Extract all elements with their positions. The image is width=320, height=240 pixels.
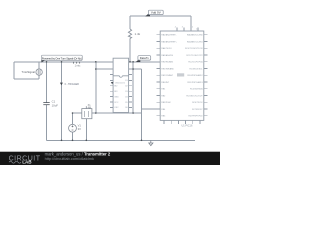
IC U2 pin name texts — [114, 80, 128, 109]
svg-text:RC4/SDI/SDA: RC4/SDI/SDA — [190, 88, 203, 91]
svg-text:RC3/SCK/SCL: RC3/SCK/SCL — [189, 68, 203, 70]
IC U1 left pin name texts — [161, 34, 177, 118]
svg-text:RC5/SDO/C2OUT: RC5/SDO/C2OUT — [186, 95, 203, 97]
svg-text:RD1/PSP1/AN13: RD1/PSP1/AN13 — [187, 81, 203, 84]
voltage source V1 — [69, 124, 77, 132]
svg-text:1: 1 — [196, 28, 197, 30]
svg-text:RD7/PSP7/P1D: RD7/PSP7/P1D — [188, 116, 203, 118]
wire top net drop to U1 top pin — [190, 16, 192, 31]
wire capacitor C1 top lead — [46, 62, 48, 103]
svg-text:RE1/WR/AN6: RE1/WR/AN6 — [161, 67, 174, 70]
svg-text:Vdd 9V: Vdd 9V — [151, 11, 161, 15]
wire mic bottom stub — [38, 75, 40, 79]
wire main horizontal net left segment — [14, 61, 113, 63]
svg-text:RE2/CS/AN7: RE2/CS/AN7 — [161, 74, 174, 77]
wire X1 bottom lead — [85, 119, 87, 141]
svg-text:DataTx: DataTx — [140, 56, 150, 60]
svg-text:RA3/AN3/VREF+: RA3/AN3/VREF+ — [161, 40, 177, 43]
net flag Vdd tail — [145, 12, 150, 16]
resistor R1 — [128, 29, 131, 39]
IC U1 body — [160, 31, 204, 120]
svg-text:OSC/CLK1: OSC/CLK1 — [115, 83, 126, 85]
wire vertical to rail at ground — [141, 69, 143, 140]
svg-text:RC7/RX/DT: RC7/RX/DT — [192, 109, 203, 111]
IC U2 left pins — [110, 75, 113, 108]
svg-text:Powered by One Turn Signal (Or: Powered by One Turn Signal (Or No) — [42, 57, 82, 61]
svg-text:RA4/T0CKI: RA4/T0CKI — [161, 47, 172, 50]
svg-text:http://circuitlab.com/c6atdmk: http://circuitlab.com/c6atdmk — [45, 156, 94, 161]
wire vertical node branch — [95, 62, 97, 113]
svg-text:RC6/TX/CK: RC6/TX/CK — [192, 102, 203, 104]
svg-text:3V: 3V — [78, 127, 81, 131]
svg-text:RA1/AN1/C12IN1: RA1/AN1/C12IN1 — [187, 40, 204, 43]
wire main horizontal net right segment — [129, 61, 161, 63]
svg-text:RE0/RD/AN5: RE0/RD/AN5 — [161, 61, 174, 64]
svg-text:RA0/AN0/C12IN0: RA0/AN0/C12IN0 — [187, 34, 204, 37]
svg-text:V1: V1 — [78, 123, 82, 127]
connector J1 pin ticks on wire — [74, 62, 80, 64]
wire V1 bottom lead — [72, 132, 74, 140]
IC U1 right pins — [204, 35, 208, 116]
wire bottom horizontal branch — [96, 112, 142, 114]
capacitor C1 — [43, 103, 49, 105]
wire mic loop bottom horizontal — [14, 78, 39, 80]
crystal X1 — [82, 106, 92, 119]
svg-text:LAB: LAB — [22, 160, 32, 165]
svg-text:RC2/CCP1/P1A: RC2/CCP1/P1A — [188, 61, 203, 64]
IC U1 top pin numbers — [175, 26, 197, 30]
svg-text:4M: 4M — [88, 107, 91, 110]
svg-text:1.4k: 1.4k — [135, 32, 141, 36]
wire capacitor C1 bottom lead — [46, 105, 48, 141]
junction dots — [46, 61, 143, 141]
svg-text:0 - TRIGGER: 0 - TRIGGER — [65, 83, 80, 86]
svg-text:RB0/INT: RB0/INT — [161, 82, 169, 84]
annotation banner box — [41, 55, 82, 60]
net flag Data box — [138, 56, 151, 60]
svg-text:GND: GND — [114, 96, 119, 98]
wire top net horizontal — [130, 15, 191, 17]
wire mic top stub — [38, 62, 40, 69]
wire mid horizontal branch right — [129, 68, 142, 70]
svg-text:RD0/PSP0/AN12: RD0/PSP0/AN12 — [187, 74, 203, 77]
svg-text:RB3/PGM: RB3/PGM — [161, 102, 170, 104]
wire V1 to X1 left pin — [73, 112, 82, 114]
probe flag triangle on wire — [60, 83, 63, 86]
IC U1 bottom pins — [164, 120, 200, 124]
wire ground rail — [47, 139, 196, 141]
IC U1 left pins — [157, 35, 161, 116]
svg-text:RC0/T1OSO/T1CKI: RC0/T1OSO/T1CKI — [185, 48, 203, 50]
svg-text:TmicSignal: TmicSignal — [22, 70, 36, 74]
footer bar — [0, 152, 220, 165]
svg-text:1 mic: 1 mic — [75, 64, 82, 67]
wire X1 right pin — [92, 112, 96, 114]
svg-text:U1 PIC16: U1 PIC16 — [182, 125, 193, 128]
wire mic loop left vertical — [13, 62, 15, 79]
wire to U1 left pin — [142, 108, 161, 110]
svg-text:3: 3 — [182, 26, 183, 28]
IC U1 center label block — [177, 73, 184, 76]
wire resistor R1 top lead — [129, 16, 131, 29]
wire V1 top lead — [72, 113, 74, 124]
wire long vertical to ground rail — [61, 62, 63, 141]
IC U1 right pin name texts — [185, 34, 203, 118]
svg-text:RC1/T1OSI/CCP2: RC1/T1OSI/CCP2 — [186, 55, 203, 57]
footer logo squiggle — [9, 161, 21, 163]
svg-text:RA5/AN4/SS: RA5/AN4/SS — [161, 54, 173, 57]
IC U2 right pins — [129, 75, 133, 108]
ground symbol — [149, 140, 153, 145]
net flag Vdd box — [148, 10, 163, 14]
IC U2 body — [113, 58, 129, 112]
IC U2 input marker triangle — [111, 82, 114, 84]
wire mid horizontal branch left — [96, 68, 113, 70]
IC U1 top pins — [177, 28, 198, 31]
microphone MIC1 — [36, 69, 42, 75]
annotation banner pointer — [41, 60, 45, 62]
svg-text:10uF: 10uF — [52, 103, 59, 107]
wire resistor R1 bottom lead — [129, 39, 131, 62]
svg-text:OSC: OSC — [114, 107, 119, 109]
svg-text:4: 4 — [175, 26, 176, 28]
svg-text:RA2/AN2/VREF-: RA2/AN2/VREF- — [161, 34, 176, 37]
svg-text:VCC: VCC — [114, 102, 119, 104]
svg-text:2: 2 — [192, 26, 193, 28]
wire vertical branch right of U2 — [132, 62, 134, 113]
net flag Data tail — [136, 58, 141, 62]
